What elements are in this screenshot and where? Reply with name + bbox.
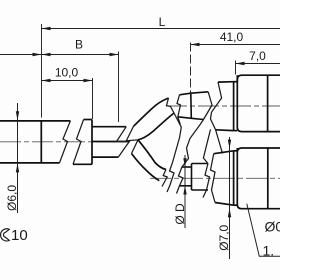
bottom cone left cut zigzag [211, 154, 216, 203]
svg-text:10: 10 [11, 227, 28, 244]
centerline bottom connector axis [150, 177, 280, 179]
probe tube [0, 121, 70, 163]
dimension 7,0 [236, 63, 281, 65]
svg-text:B: B [75, 38, 83, 52]
svg-text:10,0: 10,0 [55, 66, 79, 80]
upper branch cable band [134, 98, 175, 140]
svg-text:7,0: 7,0 [249, 49, 266, 63]
lower band second cut zigzag [167, 163, 174, 193]
break cut at end of double cable [117, 126, 139, 157]
lower stub right cut zigzag [203, 154, 215, 203]
dimension ØD [184, 155, 186, 228]
top connector collar [234, 75, 238, 130]
upper cable stub and gland flange [178, 92, 208, 120]
dimension Ø6,0 [17, 103, 19, 213]
dimension Ø7,0 [229, 137, 231, 259]
break band 2 left zigzag [182, 82, 223, 167]
lower stub left cut zigzag [177, 167, 184, 194]
break on probe tube [60, 120, 84, 165]
svg-text:1.: 1. [263, 242, 275, 258]
svg-text:41,0: 41,0 [220, 30, 244, 44]
upper stub left cut zigzag continuing down to lower stub [177, 95, 181, 125]
svg-text:Ø0,8: Ø0,8 [265, 219, 281, 235]
dimension 10,0 [42, 80, 93, 82]
dimension 41,0 [191, 44, 281, 46]
break band 2 right zigzag (top cone left cut) [211, 82, 223, 153]
cable (double) [92, 127, 129, 157]
lower band end cut zigzag [162, 163, 183, 194]
svg-text:Ø7,0: Ø7,0 [217, 224, 231, 250]
svg-text:Ø6,0: Ø6,0 [5, 185, 19, 211]
bottom connector body [237, 148, 281, 209]
leader line label 1. [247, 204, 280, 256]
dimension B (with chain line from left) [0, 54, 119, 56]
lower cable stub (ØD) stepped [180, 164, 209, 191]
sleeve [73, 120, 92, 165]
centerline top connector axis [166, 105, 280, 107]
svg-text:L: L [159, 15, 166, 29]
bottom connector gland cone [214, 151, 234, 205]
wrench symbol SW10 [1, 229, 10, 241]
svg-text:Ø D: Ø D [173, 203, 187, 225]
centerline main axis [0, 106, 280, 178]
top connector gland cone [216, 82, 234, 131]
break cut at start of Y piece [126, 126, 138, 153]
upper band end cut zigzag continuing down across gap [167, 95, 182, 163]
dimension L [42, 28, 281, 30]
top connector body [237, 75, 281, 131]
bottom connector collar [234, 148, 238, 205]
break band 2 middle segment [203, 129, 210, 163]
lower branch cable band [132, 140, 167, 181]
extension lines [42, 24, 236, 122]
